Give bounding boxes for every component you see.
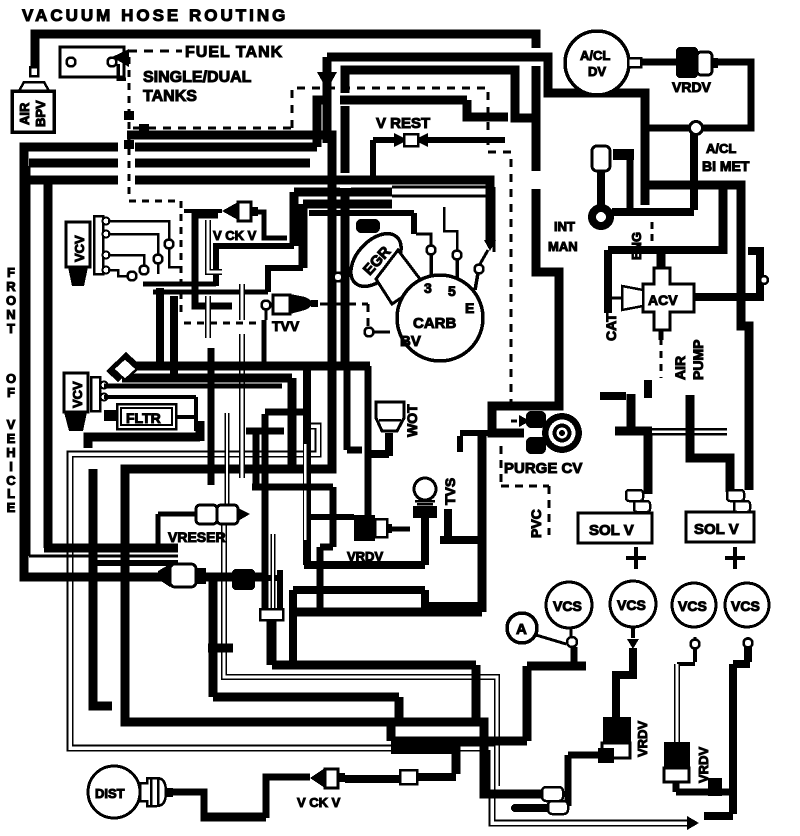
svg-text:TVS: TVS <box>442 478 458 505</box>
wire: VCK V nipple lead <box>345 775 400 783</box>
dashed horizontal y=128 to tanks box <box>133 127 292 130</box>
carb pin 5 <box>453 251 462 260</box>
component FLTR <box>117 404 176 429</box>
wire: VCV port b to FLTR bar corner <box>104 397 196 431</box>
wire: bar y=378 with x=292 drop <box>122 378 292 469</box>
wire: x=294 drop from bar192 <box>290 192 299 246</box>
svg-text:ACV: ACV <box>648 292 678 308</box>
dashed tanks box: vertical x=292, top y=88, down x=488, jog, long vertical x=505 to purge <box>292 88 511 412</box>
node: VCS1 nipple ring and stem <box>570 628 573 637</box>
carb pin E <box>475 265 484 274</box>
dashed net: fuel tank vertical x=129 <box>128 57 131 200</box>
wire: short pipe x=208 <box>208 220 222 338</box>
wire: bus B3 corner to W1 <box>345 70 536 362</box>
component INT MAN <box>548 146 610 254</box>
label FRONT OF VEHICLE <box>6 265 16 515</box>
svg-text:VCS: VCS <box>731 598 760 614</box>
wire: VRESER left lead <box>158 514 196 544</box>
svg-text:L: L <box>7 486 15 501</box>
wire: bar y=204 <box>303 200 392 209</box>
svg-text:VCV: VCV <box>72 235 87 262</box>
wire: WOT stem chain to VRDV mid <box>385 433 393 456</box>
wire: ring to carb edge <box>374 331 390 334</box>
svg-text:A: A <box>516 621 527 638</box>
component VRDV 4 <box>602 717 650 758</box>
component A/CL DV <box>565 31 641 95</box>
elbow blob <box>232 569 255 590</box>
wire: x=93 vertical from FLTR bar down <box>93 469 112 706</box>
svg-text:V: V <box>7 417 16 432</box>
ACV left funnel to CAT <box>622 286 643 310</box>
dashed AIR PUMP line below ACV <box>660 338 663 378</box>
wire: bar y=100 zig to x=508 <box>317 100 508 147</box>
svg-text:CAT: CAT <box>603 313 619 341</box>
wire: vertical x=347 <box>347 368 362 450</box>
wire: bar4 y=180 long to right side down to SOL V right <box>20 180 490 240</box>
wire: VCV bar y=292 <box>153 290 268 295</box>
wire: W2 branch right at y=93 handled; box at x=614 <box>613 149 634 160</box>
dashed PVC box <box>501 446 549 535</box>
dashed TVV line <box>320 304 368 326</box>
svg-text:N: N <box>6 307 15 322</box>
svg-text:SOL V: SOL V <box>589 522 634 539</box>
EGR top fitting blob <box>356 219 380 233</box>
wire: pipe2 near purge bottom <box>224 524 497 786</box>
wire: main bus W1 from AIR BPV top around to PURGE CV <box>35 34 559 433</box>
wire: thin bar y=556 <box>29 555 178 558</box>
purge feed stub <box>460 433 497 452</box>
svg-text:V CK V: V CK V <box>297 795 341 810</box>
svg-text:3: 3 <box>424 280 432 296</box>
svg-text:VCS: VCS <box>553 598 582 614</box>
wire: bus B2 with steps to VCV <box>327 57 645 205</box>
fitting cap <box>260 609 283 620</box>
arrowhead at pipe1 end <box>687 816 699 830</box>
wire: ENG feed bar y=250 <box>608 246 723 254</box>
lower VCV diagonal fitting <box>106 352 138 382</box>
wire: thin carb feed 1 <box>392 187 494 252</box>
wire: bar y=665 from VRESER drop to x=476 down <box>272 613 476 722</box>
wire: bar y=192 <box>294 188 392 197</box>
svg-text:TANKS: TANKS <box>143 88 197 105</box>
svg-text:VACUUM HOSE ROUTING: VACUUM HOSE ROUTING <box>22 6 288 25</box>
component DIST <box>88 766 173 818</box>
wire: INT MAN to BI MET stub bar y=212 <box>612 208 694 216</box>
pipe3 down to VRDV5 <box>674 664 680 742</box>
wire: bar3 y=163 with thin left vertical x=29 <box>29 159 310 168</box>
wire: bar y=366 from VCV fitting to carb <box>135 362 370 371</box>
svg-text:F: F <box>7 265 15 280</box>
node: VCS3 nipple ring <box>694 637 697 640</box>
wire: bar y=185 to SOL V right supply <box>645 185 749 490</box>
svg-text:E: E <box>7 500 16 515</box>
svg-text:V REST: V REST <box>376 115 430 132</box>
wire: VCV port1 <box>108 221 169 239</box>
wire: FLTR bar y=437 <box>88 421 200 448</box>
wire: VRESER feed from VCV <box>104 384 282 389</box>
component VCS 1 <box>546 582 592 628</box>
dashed ENG line <box>651 222 654 250</box>
svg-text:FLTR: FLTR <box>126 410 161 426</box>
wire: ACV top stem <box>657 250 666 268</box>
svg-text:VRDV: VRDV <box>347 549 383 564</box>
wire: pipe x=227 upper <box>225 413 230 504</box>
wires into SOL V right <box>690 395 730 492</box>
svg-text:I: I <box>9 459 13 474</box>
wire: VCK V right hose <box>416 773 456 781</box>
fitting: white cap on VCK V right hose <box>400 770 417 784</box>
component EGR <box>341 224 411 296</box>
svg-text:BI MET: BI MET <box>702 158 750 174</box>
component VRESER <box>168 505 250 545</box>
wire: VCK V step to x=287 <box>258 212 287 238</box>
wire: vertical x=211 <box>208 348 215 485</box>
svg-text:SOL V: SOL V <box>694 521 739 538</box>
svg-text:TVV: TVV <box>272 318 300 334</box>
wire: staircase bar y=590 <box>293 590 482 661</box>
wire: x=213 vertical, bar y=697 <box>213 581 399 722</box>
svg-text:E: E <box>7 431 16 446</box>
component SOL V right <box>686 512 754 569</box>
svg-text:O: O <box>6 371 16 386</box>
carb pin 3 <box>427 246 436 255</box>
component VCS 4 <box>725 583 769 627</box>
wire: thin pipe long hose (outline style) from x=318 down-left-around bottom <box>70 426 688 823</box>
wire: drop below cap <box>267 620 276 665</box>
svg-text:ENG: ENG <box>629 232 644 260</box>
svg-text:PVC: PVC <box>528 509 544 538</box>
component VRDV 5 <box>664 742 711 783</box>
node ring <box>165 240 174 249</box>
wire: thin carb feed 2 <box>392 196 487 233</box>
wire: small bar y=431 <box>246 428 284 435</box>
svg-text:O: O <box>6 293 16 308</box>
dashed arrow into purge top port <box>511 420 521 423</box>
wire: W2 step-left to VCV bars <box>216 246 294 286</box>
wire: vertical x=368 to VRDV mid <box>365 366 372 518</box>
component AIR BPV <box>12 67 54 132</box>
wire: ACV right port loop <box>694 251 760 297</box>
wire: CAT drop x=608 <box>604 250 612 313</box>
svg-text:BPV: BPV <box>33 100 48 127</box>
component V REST <box>373 115 505 178</box>
node: EGR side ring <box>332 276 334 279</box>
gaps on W1 vertical at bus crossings <box>530 48 541 66</box>
svg-text:T: T <box>7 321 15 336</box>
wire: VCV to FLTR connector <box>104 410 116 421</box>
wire: VRDV right loop down to A/CL BI MET <box>645 62 751 128</box>
svg-text:DIST: DIST <box>95 786 125 801</box>
wire: stub near x=213 <box>208 644 233 653</box>
fittings into bottom chain <box>542 787 563 801</box>
svg-text:5: 5 <box>448 283 456 299</box>
wire: VCV medium bars y=284, y=292 <box>143 282 216 287</box>
inline fitting on bar581 <box>158 564 170 587</box>
wire: x=303 drop from bar204 <box>299 204 308 268</box>
dashed line: fuel tank to label <box>128 50 182 53</box>
wire: bar y=750 <box>391 746 458 754</box>
svg-text:VRDV: VRDV <box>672 79 712 95</box>
svg-text:FUEL TANK: FUEL TANK <box>185 44 283 61</box>
svg-text:VRDV: VRDV <box>696 747 711 783</box>
wire: VCV port3 <box>108 255 144 265</box>
component lower VCV <box>64 373 108 431</box>
junction dash dots on x=129 <box>124 111 134 120</box>
svg-text:WOT: WOT <box>404 404 420 437</box>
svg-text:AIR: AIR <box>17 102 32 125</box>
component PURGE CV <box>504 411 582 477</box>
thin line left along bottom <box>204 813 266 816</box>
component ACV <box>643 268 694 330</box>
wire: TVS staircase 1 <box>440 509 482 540</box>
svg-text:A/CL: A/CL <box>580 48 610 63</box>
wire: FLTR right stub <box>176 415 196 419</box>
component CARB BV <box>397 275 483 361</box>
component fuel tank sender box <box>60 47 129 79</box>
wires into SOL V left <box>627 394 636 428</box>
component VCS 3 <box>672 583 716 627</box>
wire: pipe x=242 <box>239 284 245 478</box>
component upper VCV <box>66 216 110 286</box>
component TVV <box>262 294 319 364</box>
svg-text:H: H <box>6 445 15 460</box>
wire: bar2 right piece <box>135 143 317 152</box>
wire: x=48 vertical to bar y=548 <box>44 180 178 548</box>
svg-text:MAN: MAN <box>548 239 578 254</box>
wire: ACV top stem from ENG bar <box>658 250 665 266</box>
svg-text:E: E <box>465 300 474 316</box>
wire: verticals x=160, x=174 down from VCV bars <box>156 288 164 362</box>
wire: short vertical x=280 <box>277 570 283 611</box>
wire: blob link <box>253 575 282 581</box>
component SOL V left <box>578 513 652 569</box>
wire: VCK V left lead <box>184 209 222 213</box>
wire: staircase 2 from VRDV region <box>304 512 425 565</box>
svg-text:PUMP: PUMP <box>690 340 706 380</box>
wire: L stub near x=262 <box>265 412 303 611</box>
svg-text:F: F <box>7 385 15 400</box>
wire: VRDV mid to TVS <box>388 527 410 532</box>
svg-text:PURGE CV: PURGE CV <box>504 460 582 477</box>
wire: med bar y=563 <box>93 560 178 566</box>
svg-text:CARB: CARB <box>413 315 456 332</box>
component VCK V lower <box>297 768 345 810</box>
svg-text:DV: DV <box>588 64 606 79</box>
component VRDV mid <box>252 428 392 612</box>
wire: x=310 vertical <box>303 368 311 565</box>
svg-text:R: R <box>6 279 16 294</box>
wire: vertical x=174 <box>170 296 178 375</box>
wire: purge down-chain vertical x=482 and bar y=612 <box>289 435 482 612</box>
wire: DIST to VCK V lower <box>173 777 310 818</box>
node: TVV dash nipple <box>365 328 374 337</box>
svg-text:AIR: AIR <box>672 356 688 380</box>
wire: VCS2 stem with arrow <box>631 627 635 638</box>
wire: VCS3 lead to pipe <box>677 648 695 664</box>
ACV bottom stem <box>659 330 664 340</box>
component VCK V upper <box>213 202 258 243</box>
wire: bar_a y=135 into W4 long path to bottom fittings <box>125 135 542 794</box>
wire: x=723 vertical from bar4 down to ENG feed bar <box>719 185 728 254</box>
component A circle <box>507 613 566 644</box>
svg-text:V CK V: V CK V <box>213 228 257 243</box>
wire: x=630 drop to ENG <box>627 160 634 215</box>
svg-text:SINGLE/DUAL: SINGLE/DUAL <box>143 69 252 86</box>
wire: thin vertical x=29 <box>28 166 31 556</box>
component TVS <box>413 478 458 518</box>
arrow stub into tanks dashed box <box>323 57 332 143</box>
svg-text:VRDV: VRDV <box>635 721 650 757</box>
wire: A/CL DV to VRDV <box>641 59 678 66</box>
wire: VCS1 chain bars <box>391 666 586 741</box>
wire: VCV port4 <box>108 270 127 276</box>
EGR neck to carb <box>376 250 423 304</box>
svg-text:VCS: VCS <box>678 598 707 614</box>
component VCS 2 <box>610 581 656 627</box>
wire: bar2 y=149 left corner down x=24, bottom bar y=581 <box>24 147 262 577</box>
wire: VCV port2 <box>108 234 158 254</box>
pipe to cap <box>271 534 276 611</box>
component WOT <box>376 402 420 437</box>
component VRDV top <box>672 47 718 95</box>
svg-text:BV: BV <box>400 333 421 350</box>
wire: VRDV4 bottom loop <box>568 755 598 806</box>
dashed corner to x=181 and down <box>129 201 256 323</box>
svg-text:VCS: VCS <box>617 597 646 613</box>
svg-text:VRESER: VRESER <box>168 529 226 545</box>
svg-text:VCV: VCV <box>70 381 85 408</box>
wire: bar y=213 to carb pin 3 <box>309 213 414 234</box>
svg-text:INT: INT <box>554 219 575 234</box>
wire: x=456 drop <box>452 741 461 774</box>
wire: thick corner right of VCV to VCK V <box>195 215 232 306</box>
svg-text:A/CL: A/CL <box>706 141 736 156</box>
